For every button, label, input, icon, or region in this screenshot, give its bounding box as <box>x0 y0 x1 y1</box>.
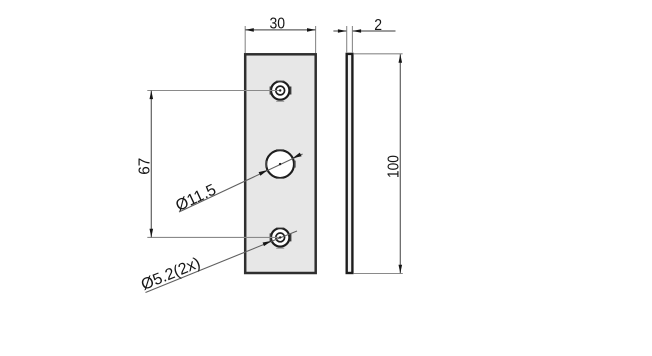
svg-text:100: 100 <box>385 155 402 178</box>
dimension 67: extension line top (to top hole centre) <box>147 90 280 92</box>
middle hole centre dot <box>279 163 281 165</box>
leader diameter 11.5: arrowhead upper-right <box>293 153 302 159</box>
svg-text:2: 2 <box>374 17 382 34</box>
dimension 30: dimension line <box>245 29 315 31</box>
leader diameter 11.5: leader line through middle hole <box>179 154 303 212</box>
dimension 100: extension line bottom <box>353 273 403 275</box>
dimension 100: extension line top <box>353 53 402 55</box>
dimension 30: extension line right <box>315 26 317 53</box>
dimension 2: arrowhead left <box>338 29 347 33</box>
leader diameter 11.5: arrowhead lower-left <box>259 170 268 176</box>
dimension 2: dimension line right segment <box>353 30 396 32</box>
dimension 100: arrowhead top <box>399 54 403 63</box>
leader diameter 5.2: leader line through bottom hole <box>146 231 298 293</box>
dimension 67: arrowhead bottom <box>150 229 154 238</box>
front view plate <box>245 54 316 273</box>
leader diameter 5.2: arrowhead at hole <box>263 241 272 246</box>
dimension 67: extension line bottom (to bottom hole centre) <box>147 236 280 238</box>
hole bottom (front view, small) <box>270 227 292 249</box>
dimension 2: extension line right <box>351 26 353 53</box>
dimension 30: arrowhead right <box>307 28 316 32</box>
hole top (front view, small) <box>270 80 292 102</box>
top hole centre dot <box>279 89 281 91</box>
dimension 30: extension line left <box>244 26 246 53</box>
dimension 100: arrowhead bottom <box>399 265 403 274</box>
dimension 2: dimension line left segment <box>333 30 346 32</box>
bottom hole centre dot <box>279 236 281 238</box>
dimension 2: arrowhead right <box>353 29 362 33</box>
dimension 100: dimension line <box>399 54 401 273</box>
dimension 67: dimension line <box>150 91 152 238</box>
side view plate <box>347 54 353 273</box>
dimension 2: extension line left <box>346 26 348 53</box>
svg-text:30: 30 <box>270 16 286 33</box>
svg-text:67: 67 <box>136 158 153 175</box>
dimension 67: arrowhead top <box>150 91 154 100</box>
hole middle (front view, large) <box>265 149 295 179</box>
dimension 30: arrowhead left <box>245 28 254 32</box>
